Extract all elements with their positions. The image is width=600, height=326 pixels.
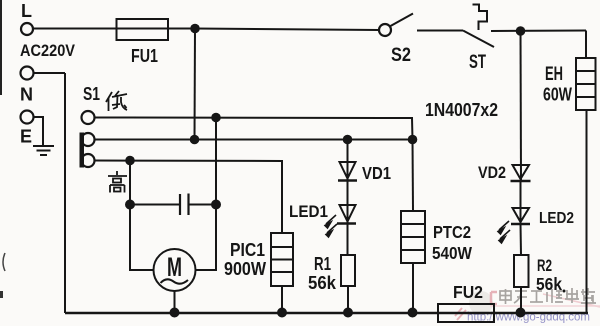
svg-text:540W: 540W (432, 243, 472, 263)
diode VD2 (513, 165, 530, 179)
terminal E (21, 111, 34, 124)
svg-text:PIC1: PIC1 (230, 240, 265, 260)
LED LED1 (340, 205, 356, 222)
switch S1 contact 3 (high) (82, 154, 95, 167)
wire VD2 to LED2 (520, 181, 522, 224)
junction node PTC2 bottom (408, 308, 418, 318)
ground (33, 146, 54, 155)
svg-text:FU2: FU2 (453, 282, 483, 302)
svg-text:S1: S1 (83, 84, 100, 104)
switch S2 (379, 24, 391, 36)
wire PIC1 to bottom (281, 286, 283, 313)
svg-text:E: E (20, 127, 32, 147)
wire VD1 to LED1 (347, 181, 349, 224)
wire S1 feed row (94, 139, 413, 141)
junction node capacitor left (125, 200, 135, 210)
junction node capacitor left branch (125, 156, 135, 166)
switch S1 contact 1 (low) (82, 111, 95, 124)
LED LED2 (513, 208, 530, 222)
wire capacitor left / motor left branch (130, 161, 154, 271)
wire VD1 feed (347, 140, 349, 182)
wire S1 high row to PIC1 (94, 161, 282, 234)
junction node motor bottom (170, 308, 180, 318)
terminal N (21, 67, 34, 80)
junction node after FU1 (190, 24, 200, 34)
wire L to S2 (top live wire) (33, 29, 379, 31)
junction node R2 bottom (516, 308, 526, 318)
svg-text:900W: 900W (224, 259, 266, 279)
wire FU1 node down to S1 feed row (194, 29, 197, 140)
svg-text:LED1: LED1 (289, 202, 328, 221)
wire capacitor left lead (130, 204, 180, 206)
svg-text:LED2: LED2 (539, 210, 574, 227)
junction node PIC1 bottom (277, 308, 287, 318)
svg-text:N: N (20, 85, 33, 105)
junction node motor right feed (211, 113, 221, 123)
capacitor C (179, 194, 181, 215)
terminal L (21, 23, 33, 35)
svg-text:R1: R1 (314, 254, 331, 274)
wire bottom neutral return (65, 312, 588, 315)
svg-text:VD1: VD1 (362, 163, 391, 183)
wire S2 to ST (417, 30, 463, 32)
wire ST node down to VD2 (520, 31, 523, 181)
junction node ST output (516, 26, 526, 36)
wire R2 to bottom (520, 287, 522, 313)
svg-text:AC220V: AC220V (20, 41, 76, 60)
wire LED2 to R2 (520, 224, 523, 255)
heater EH (576, 58, 596, 110)
wire S1 low row (94, 118, 413, 140)
wire left neutral rail (64, 73, 66, 313)
wire PTC2 feed (412, 140, 415, 212)
heater PIC1 (271, 233, 293, 286)
thermostat ST (463, 31, 494, 48)
svg-text:L: L (21, 1, 32, 21)
wire LED1 to R1 (347, 224, 349, 255)
motor M (154, 249, 196, 291)
svg-text:EH: EH (545, 64, 563, 85)
svg-text:56k: 56k (536, 274, 562, 294)
PTC PTC2 (401, 211, 425, 263)
junction node PTC2 branch (408, 135, 418, 145)
wire R1 to bottom (347, 286, 349, 313)
svg-text:60W: 60W (543, 85, 572, 105)
diode VD1 (340, 162, 356, 179)
wire capacitor right lead (189, 204, 217, 206)
junction node capacitor right (211, 200, 221, 210)
resistor R2 (514, 255, 529, 287)
resistor R1 (341, 255, 355, 286)
svg-text:PTC2: PTC2 (433, 222, 471, 242)
svg-text:S2: S2 (391, 45, 411, 66)
fuse FU2 (438, 304, 494, 322)
junction node live feed (190, 135, 200, 145)
fuse FU1 (117, 19, 169, 40)
svg-text:M: M (167, 252, 182, 282)
svg-text:FU1: FU1 (131, 46, 158, 66)
svg-text:R2: R2 (537, 256, 552, 275)
junction node VD1 branch (343, 135, 353, 145)
wire motor to bottom (174, 291, 176, 313)
switch S1 wiper bar (80, 133, 85, 168)
svg-text:VD2: VD2 (478, 163, 506, 182)
wire EH to bottom right corner (586, 110, 588, 313)
wire E to ground (34, 117, 43, 145)
svg-text:56k: 56k (308, 273, 337, 293)
svg-text:ST: ST (469, 52, 486, 73)
switch S1 contact 2 (feed) (82, 133, 95, 146)
wire motor right branch (196, 118, 217, 271)
wire EH feed (585, 31, 587, 59)
wire PTC2 to bottom (412, 263, 414, 313)
junction node R1 bottom (343, 308, 353, 318)
wire ST to EH corner (491, 30, 586, 33)
wire N terminal to left rail (34, 72, 65, 74)
label high speed (Chinese) (108, 171, 127, 193)
label low speed (Chinese) (106, 91, 127, 111)
svg-text:1N4007x2: 1N4007x2 (425, 100, 498, 120)
scan edge artifact left (0, 0, 2, 95)
watermark (455, 288, 600, 324)
